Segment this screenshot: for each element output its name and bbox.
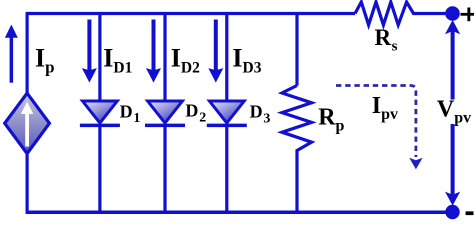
svg-text:D3: D3 (250, 102, 271, 127)
svg-text:Rs: Rs (375, 25, 398, 55)
svg-text:ID1: ID1 (103, 43, 132, 76)
svg-text:Ipv: Ipv (372, 93, 398, 123)
svg-text:ID2: ID2 (171, 43, 200, 76)
svg-text:D1: D1 (120, 102, 141, 127)
svg-text:Vpv: Vpv (437, 96, 471, 126)
svg-text:ID3: ID3 (232, 43, 261, 76)
svg-text:D2: D2 (185, 100, 206, 125)
svg-text:Rp: Rp (318, 105, 344, 135)
svg-text:Ip: Ip (35, 43, 55, 76)
